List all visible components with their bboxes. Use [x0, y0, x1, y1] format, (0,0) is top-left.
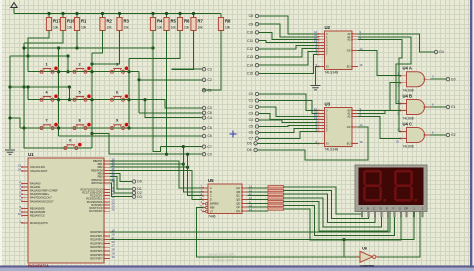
resistor RN1: [268, 186, 284, 188]
terminal C0 (keypad side): [202, 106, 212, 110]
inverter U6: [356, 246, 379, 268]
wire segment 5 to display: [284, 202, 389, 232]
junction rail R6: [178, 12, 181, 15]
decoder U5 7446: [208, 178, 242, 219]
junction: [68, 85, 71, 88]
junction: [90, 70, 93, 73]
wire C7 run2: [161, 146, 203, 148]
U1 pins: [18, 158, 115, 261]
wire U3 A0 to U4:A: [358, 83, 401, 111]
resistor R7 10k: [191, 18, 204, 31]
wire segment 6 to display: [284, 205, 395, 235]
svg-text:R7: R7: [198, 19, 204, 24]
terminal C11 (encoder U2 side): [247, 39, 259, 43]
terminal C6 (encoder U3 side): [249, 131, 259, 135]
svg-text:C6: C6: [249, 131, 253, 135]
junction: [127, 98, 130, 101]
junction rail R4: [151, 12, 154, 15]
terminal D1: [132, 187, 142, 191]
wire to U3 input: [259, 128, 319, 132]
resistor R1 10k: [74, 18, 87, 31]
wire to U3 input: [259, 94, 319, 110]
svg-text:QG: QG: [236, 209, 240, 213]
wire to U6 input: [344, 240, 360, 257]
svg-text:RE1/AN6/WR: RE1/AN6/WR: [30, 211, 45, 214]
svg-text:U4 A: U4 A: [403, 66, 412, 71]
junction: [186, 153, 189, 156]
encoder U2 74LS148: [325, 25, 353, 74]
wire segment 1 to display: [284, 187, 363, 214]
microcontroller U1 PIC16F877A: [28, 152, 104, 263]
ground keypad: [5, 150, 15, 154]
svg-text:10k: 10k: [184, 26, 190, 30]
svg-text:RD0/PSP0: RD0/PSP0: [90, 231, 103, 234]
wire R3 top: [119, 14, 121, 18]
wire U4:B out: [431, 106, 447, 108]
svg-text:8: 8: [79, 119, 81, 123]
svg-text:1: 1: [46, 62, 48, 66]
resistor RN6: [268, 204, 284, 206]
svg-text:QC: QC: [236, 194, 240, 198]
svg-text:C13: C13: [247, 55, 253, 59]
svg-text:C5: C5: [207, 126, 211, 130]
wire row1 feed drop: [67, 56, 69, 72]
svg-text:DP: DP: [404, 207, 408, 211]
svg-text:C0: C0: [249, 92, 253, 96]
junction rail R3: [118, 12, 121, 15]
svg-text:B: B: [210, 190, 212, 194]
wire to U2 input: [259, 32, 319, 39]
wire to C2: [139, 79, 202, 81]
junction: [68, 98, 71, 101]
wire R6 to col3: [129, 31, 180, 59]
resistor R4 10k: [150, 18, 163, 31]
junction: [8, 85, 11, 88]
svg-text:R1: R1: [81, 19, 87, 24]
resistor R6 10k: [177, 18, 190, 31]
terminal C3 (keypad side): [202, 67, 212, 71]
wire col2 to C0 run: [92, 134, 202, 155]
wire R2 top: [102, 14, 104, 18]
wire RB0 to U5 A: [110, 161, 203, 188]
junction: [127, 70, 130, 73]
wire RB6 to D2: [110, 180, 132, 193]
wire to U3 input: [259, 120, 319, 122]
svg-text:C5: C5: [249, 125, 253, 129]
svg-text:C7: C7: [207, 145, 211, 149]
svg-text:R5: R5: [171, 19, 177, 24]
wire segment 7 to display: [284, 209, 402, 240]
wire to U2 input: [259, 46, 319, 49]
wire to U2 input: [259, 16, 319, 34]
junction rail R1: [75, 12, 78, 15]
wire U3 A1 to U4:B: [358, 111, 401, 114]
terminal E0: [446, 77, 455, 81]
wire U5 out to network: [248, 210, 269, 212]
terminal C15 (encoder U2 side): [247, 72, 259, 76]
terminal C2 (keypad side): [202, 78, 212, 82]
junction col1 top: [57, 46, 60, 49]
terminal E1: [446, 105, 455, 109]
wire RB3 to U5 D: [110, 170, 203, 199]
wire R8 top: [220, 14, 222, 18]
junction: [57, 98, 60, 101]
wire U5 RBI tie: [197, 208, 345, 257]
push button 0: [64, 139, 82, 150]
resistor R17 10k: [46, 18, 61, 31]
wire R4 top: [152, 14, 154, 18]
terminal C0 (encoder U3 side): [249, 92, 259, 96]
wire segment 2 to display: [284, 191, 369, 219]
svg-text:BI/RBO: BI/RBO: [210, 202, 219, 206]
wire to U3 input: [259, 131, 319, 138]
junction: [57, 70, 60, 73]
U2 pins: [314, 30, 363, 68]
svg-text:U4 C: U4 C: [403, 122, 413, 127]
wire U3 GS to terminal: [257, 127, 368, 160]
svg-text:Today.com: Today.com: [212, 258, 234, 263]
wire segment 3 to display: [284, 194, 376, 222]
svg-text:G: G: [399, 207, 401, 211]
wire R16 to scan column: [24, 31, 63, 44]
resistor RN4: [268, 197, 284, 199]
junction: [137, 78, 140, 81]
svg-text:R3: R3: [124, 19, 130, 24]
wire row1 feed: [10, 55, 68, 57]
wire U4:C out: [431, 134, 447, 136]
wire col C8 drop: [138, 72, 140, 113]
push button 1: [40, 62, 58, 73]
wire to U2 input: [259, 41, 319, 43]
svg-text:10k: 10k: [81, 26, 87, 30]
junction: [186, 166, 189, 169]
wire R2 to col2: [92, 31, 103, 54]
wire U2 A0 to D4: [358, 34, 434, 52]
svg-text:2: 2: [79, 62, 81, 66]
7-segment display DISP1: [355, 165, 427, 217]
svg-text:C: C: [210, 194, 212, 198]
terminal C12 (encoder U2 side): [247, 47, 259, 51]
terminal C9 (encoder U2 side): [249, 22, 259, 26]
svg-text:INVERTER: INVERTER: [360, 264, 374, 268]
svg-text:D0: D0: [137, 180, 141, 184]
svg-text:QE: QE: [236, 201, 240, 205]
wire ground bus: [9, 56, 11, 149]
wire to U3 input: [259, 107, 319, 116]
wire col1: [58, 48, 60, 136]
svg-text:C1: C1: [249, 99, 253, 103]
wire U3 A2 to U4:C: [358, 116, 401, 138]
wire to U2 input: [259, 24, 319, 37]
wire R1 down: [76, 31, 78, 49]
wire digit1 select: [110, 212, 414, 240]
wire R3 branch: [92, 31, 120, 65]
wire RB5 to D1: [110, 177, 132, 189]
wire row2 drop a: [27, 87, 29, 100]
push button 4: [40, 90, 58, 101]
svg-text:A: A: [361, 207, 363, 211]
resistor R2 10k: [100, 18, 113, 31]
svg-text:OSC1/CLKIN: OSC1/CLKIN: [30, 166, 45, 169]
wire to C4: [145, 100, 202, 118]
svg-text:RA2/AN2/VREF-/CVREF: RA2/AN2/VREF-/CVREF: [30, 190, 58, 193]
wire segment 4 to display: [284, 198, 382, 227]
svg-text:B: B: [367, 207, 369, 211]
resistor R16 10k: [60, 18, 75, 31]
svg-text:QB: QB: [236, 190, 240, 194]
wire R7 to C3: [172, 31, 202, 70]
wire RB7 to D3: [110, 183, 132, 197]
resistor R8 10k: [218, 18, 231, 31]
svg-text:C2: C2: [207, 78, 211, 82]
wire R16 top: [62, 14, 64, 18]
svg-text:EO: EO: [347, 65, 351, 69]
ground U2: [311, 86, 321, 90]
svg-text:EO: EO: [347, 142, 351, 146]
svg-text:RD2/PSP2: RD2/PSP2: [90, 239, 103, 242]
svg-text:E0: E0: [451, 77, 455, 81]
svg-text:A2: A2: [347, 114, 351, 118]
svg-text:E2: E2: [451, 133, 455, 137]
svg-text:C14: C14: [247, 63, 253, 67]
svg-text:7: 7: [46, 119, 48, 123]
svg-text:EI: EI: [326, 142, 329, 146]
wire R5 top: [166, 14, 168, 18]
wire col1 to C6: [59, 135, 202, 137]
svg-text:74LS08: 74LS08: [403, 145, 414, 149]
svg-text:A: A: [210, 186, 212, 190]
svg-text:R8: R8: [225, 19, 231, 24]
wire U2 A1 to U4:B: [358, 37, 411, 104]
svg-text:C1: C1: [207, 88, 211, 92]
wire row2 feed drop: [68, 87, 70, 100]
terminal C8 (encoder U2 side): [249, 14, 259, 18]
svg-text:RD6/PSP6: RD6/PSP6: [90, 254, 103, 257]
svg-text:RD4/PSP4: RD4/PSP4: [90, 246, 103, 249]
terminal C5 (encoder U3 side): [249, 125, 259, 129]
terminal C10 (encoder U2 side): [247, 31, 259, 35]
svg-text:C8: C8: [207, 111, 211, 115]
wire R1 top: [76, 14, 78, 18]
push button 5: [73, 90, 91, 101]
svg-text:D3: D3: [137, 195, 141, 199]
junction: [165, 153, 168, 156]
terminal C7 (encoder U3 side): [249, 137, 259, 141]
svg-text:C3: C3: [207, 67, 211, 71]
junction R3/col2: [90, 62, 93, 65]
svg-text:R4: R4: [157, 19, 163, 24]
svg-text:10k: 10k: [198, 26, 204, 30]
wire row4: [65, 147, 92, 149]
svg-text:RD7/PSP7: RD7/PSP7: [90, 258, 103, 261]
wire U5 out to network: [248, 206, 269, 208]
svg-text:E1: E1: [451, 105, 455, 109]
terminal C13 (encoder U2 side): [247, 55, 259, 59]
svg-text:U4 B: U4 B: [403, 94, 413, 99]
svg-text:RD5/PSP5: RD5/PSP5: [90, 250, 103, 253]
svg-text:U5: U5: [208, 178, 214, 183]
svg-text:74LS08: 74LS08: [403, 89, 414, 93]
junction: [26, 85, 29, 88]
junction scan/48: [22, 46, 25, 49]
push button 6: [111, 90, 129, 101]
wire U5 out to network: [248, 195, 269, 197]
svg-text:D6: D6: [247, 148, 251, 152]
svg-text:RA4/T0CKI/C1OUT: RA4/T0CKI/C1OUT: [30, 197, 52, 200]
svg-text:C4: C4: [207, 116, 211, 120]
wire EI terminal to U3 EI: [257, 142, 318, 144]
svg-text:0: 0: [69, 139, 71, 143]
wire to U3 input: [259, 125, 319, 126]
terminal D5 (U3 EI): [247, 142, 257, 146]
svg-text:74LS148: 74LS148: [325, 71, 339, 75]
wire R7 top: [193, 14, 195, 18]
svg-text:GS: GS: [347, 48, 351, 52]
terminal D6 (U3 GS): [247, 148, 257, 152]
svg-text:C15: C15: [247, 72, 253, 76]
junction rail R16: [61, 12, 64, 15]
junction rail R2: [101, 12, 104, 15]
terminal C3 (encoder U3 side): [249, 112, 259, 116]
svg-text:U1: U1: [28, 152, 34, 157]
terminal C6 (keypad side): [202, 134, 212, 138]
svg-text:RE2/AN7/CS: RE2/AN7/CS: [30, 215, 45, 218]
wire U1 to display: [110, 212, 390, 233]
junction U6 input: [342, 238, 345, 241]
svg-text:www.Circuits: www.Circuits: [208, 252, 235, 257]
encoder U3 74LS148: [325, 102, 353, 152]
wire row3: [20, 127, 129, 129]
terminal C0 (PIC side): [202, 152, 212, 156]
terminal D0: [132, 180, 142, 184]
svg-text:3: 3: [116, 62, 118, 66]
junction: [90, 98, 93, 101]
wire RB1: [110, 163, 183, 165]
svg-text:C2: C2: [249, 105, 253, 109]
svg-text:GS: GS: [347, 125, 351, 129]
wire U5 out to network: [248, 199, 269, 201]
resistor RN2: [268, 189, 284, 191]
svg-text:C3: C3: [249, 112, 253, 116]
push button 8: [73, 119, 91, 130]
svg-text:QD: QD: [236, 198, 240, 202]
U5 pins: [201, 184, 253, 213]
junction scan/row3: [22, 126, 25, 129]
svg-text:RA5/AN4/SS/C2OUT: RA5/AN4/SS/C2OUT: [30, 200, 54, 203]
svg-text:C: C: [373, 207, 375, 211]
svg-text:PIC16F877A: PIC16F877A: [28, 264, 49, 268]
svg-text:7446: 7446: [208, 215, 216, 219]
svg-text:D: D: [380, 207, 382, 211]
wire U6 out to digit2: [377, 212, 420, 257]
wire row2 feed: [10, 86, 69, 88]
svg-text:10k: 10k: [171, 26, 177, 30]
svg-text:74LS08: 74LS08: [403, 117, 414, 121]
terminal C7 (PIC side): [202, 145, 212, 149]
resistor RN3: [268, 193, 284, 195]
push button 7: [40, 119, 58, 130]
sheet border: [0, 0, 2, 271]
wire to U2 input: [259, 49, 319, 57]
svg-text:10k: 10k: [124, 26, 130, 30]
svg-text:D: D: [210, 198, 212, 202]
svg-text:D5: D5: [247, 142, 251, 146]
svg-text:C0: C0: [207, 106, 211, 110]
wire R4 column to C7: [153, 31, 161, 152]
svg-text:E: E: [386, 207, 388, 211]
wire left scan column to row4: [24, 43, 65, 148]
svg-text:C10: C10: [247, 31, 253, 35]
junction: [127, 126, 130, 129]
svg-text:C12: C12: [247, 47, 253, 51]
svg-text:RD3/PSP3: RD3/PSP3: [90, 242, 103, 245]
svg-text:R6: R6: [184, 19, 190, 24]
terminal E2: [446, 133, 455, 137]
junction: [66, 54, 69, 57]
svg-text:9: 9: [116, 119, 118, 123]
wire to U2 input: [259, 54, 319, 73]
wire row1 ext: [124, 71, 140, 73]
wire col3: [128, 59, 130, 128]
wire col2: [91, 53, 93, 148]
junction scan/row2 feed: [22, 85, 25, 88]
resistor R5 10k: [164, 18, 177, 31]
wire U4:A out: [431, 78, 447, 80]
svg-text:C0: C0: [207, 152, 211, 156]
svg-text:D4: D4: [439, 50, 443, 54]
junction: [182, 163, 185, 166]
svg-text:C6: C6: [207, 134, 211, 138]
wire R17 to row1: [28, 31, 49, 72]
wire VCC rail: [14, 13, 221, 15]
wire to U5 B: [183, 147, 203, 192]
svg-text:10k: 10k: [157, 26, 163, 30]
junction R4 branch: [151, 46, 154, 49]
power symbol VCC: [11, 3, 17, 14]
svg-text:10k: 10k: [107, 26, 113, 30]
svg-text:10k: 10k: [67, 26, 73, 30]
svg-text:U2: U2: [325, 25, 331, 30]
svg-text:RC7/RX/DT: RC7/RX/DT: [89, 210, 103, 213]
wire U5 out to network: [248, 202, 269, 204]
junction: [143, 98, 146, 101]
svg-text:C8: C8: [249, 14, 253, 18]
push button 2: [73, 62, 91, 73]
svg-text:F: F: [393, 207, 395, 211]
svg-text:EI: EI: [326, 65, 329, 69]
wire row3 feed: [10, 118, 20, 128]
svg-text:10k: 10k: [53, 26, 59, 30]
wire U2 A2 to U4:C: [358, 40, 402, 132]
wire row1: [28, 71, 124, 73]
cursor marker: [230, 131, 237, 138]
wire U5 out to network: [248, 191, 269, 193]
push button 3: [111, 62, 129, 73]
svg-text:RB7/PGD: RB7/PGD: [92, 182, 103, 185]
terminal C2 (encoder U3 side): [249, 105, 259, 109]
junction rail R7: [192, 12, 195, 15]
svg-text:OSC2/CLKOUT: OSC2/CLKOUT: [30, 170, 48, 173]
wire row3 to C5: [129, 127, 202, 129]
wire to U5 C: [188, 154, 203, 196]
terminal D3: [132, 195, 142, 199]
junction: [57, 126, 60, 129]
svg-text:C7: C7: [249, 137, 253, 141]
svg-text:10k: 10k: [225, 26, 231, 30]
wire row2 to C0: [124, 100, 203, 108]
svg-text:RBI: RBI: [210, 206, 215, 210]
svg-text:C9: C9: [249, 22, 253, 26]
